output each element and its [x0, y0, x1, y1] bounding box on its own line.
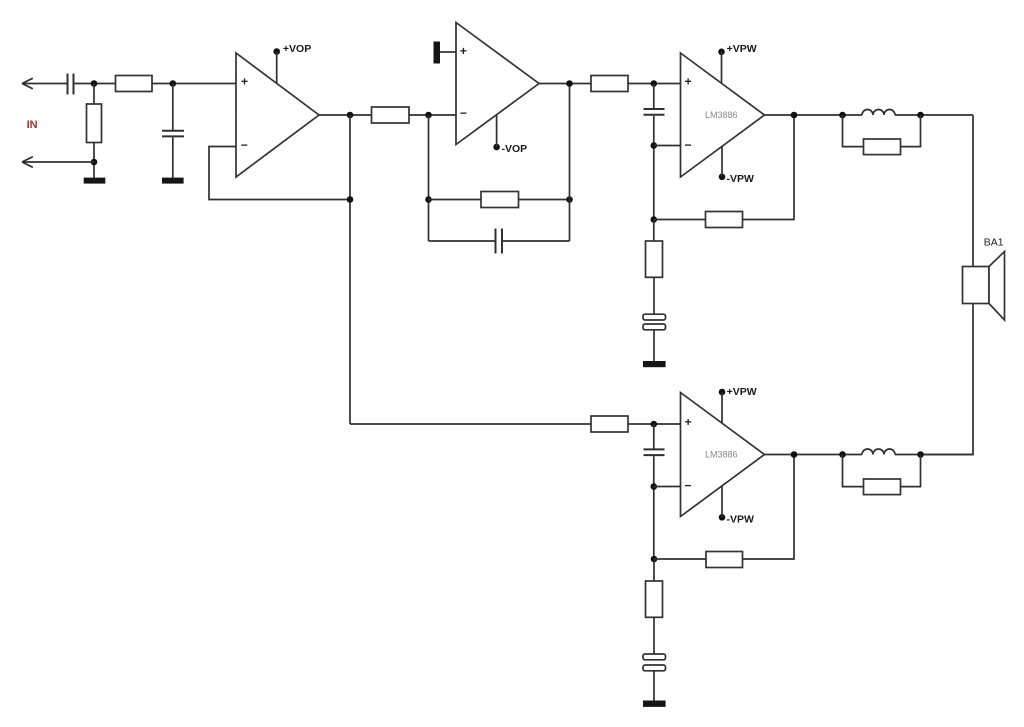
wire — [93, 143, 95, 178]
wire — [152, 83, 236, 85]
node B — [91, 159, 98, 166]
node E — [347, 196, 354, 203]
wire U2 output — [539, 83, 591, 85]
node S — [791, 451, 798, 458]
wire to lower amp — [350, 423, 591, 425]
wire — [569, 84, 571, 242]
svg-text:+: + — [460, 44, 467, 58]
capacitor C3 — [429, 229, 570, 254]
node F — [425, 112, 432, 119]
resistor R4 — [481, 192, 519, 208]
+VPW power node (U3) — [718, 43, 757, 83]
capacitor C6 — [644, 424, 665, 559]
svg-text:+VPW: +VPW — [727, 43, 757, 55]
svg-text:+: + — [685, 74, 692, 88]
resistor R12 (parallel with L2) — [843, 455, 921, 495]
wire — [519, 199, 570, 201]
svg-text:−: − — [460, 106, 467, 120]
svg-text:+VOP: +VOP — [283, 43, 311, 55]
svg-text:−: − — [241, 138, 248, 152]
wire — [628, 83, 681, 85]
-VPW power node (U4) — [719, 486, 754, 526]
wire — [349, 115, 351, 424]
wire — [895, 454, 973, 456]
inductor L1 — [862, 110, 895, 115]
wire — [654, 486, 681, 488]
resistor R8 (parallel with L1) — [843, 115, 921, 155]
resistor R2 — [116, 76, 153, 92]
wire — [743, 455, 795, 560]
+VOP power node — [273, 43, 311, 84]
svg-text:−: − — [685, 479, 692, 493]
wire — [654, 558, 706, 560]
node O — [917, 112, 924, 119]
capacitor C7 — [643, 654, 666, 701]
capacitor C1 — [68, 74, 74, 95]
node I — [566, 80, 573, 87]
svg-text:+: + — [241, 75, 248, 89]
capacitor C2 — [162, 84, 184, 178]
node N — [839, 112, 846, 119]
-VOP power node — [493, 115, 527, 155]
wire U1 output — [319, 114, 372, 116]
resistor R7 — [646, 220, 663, 315]
node K — [651, 142, 658, 149]
node R — [651, 556, 658, 563]
node U — [917, 451, 924, 458]
op-amp U4 LM3886 — [681, 393, 765, 517]
wire — [895, 114, 973, 116]
svg-text:+VPW: +VPW — [727, 386, 757, 398]
svg-text:-VPW: -VPW — [727, 173, 755, 185]
inductor L2 — [862, 449, 895, 454]
node M — [791, 112, 798, 119]
resistor R11 — [646, 559, 663, 654]
node G — [425, 196, 432, 203]
svg-text:+: + — [685, 415, 692, 429]
wire — [93, 84, 95, 105]
node H — [566, 196, 573, 203]
input terminal arrow bottom — [22, 157, 94, 168]
wire U3 output — [765, 114, 863, 116]
ground — [643, 701, 666, 707]
capacitor C4 — [644, 84, 665, 220]
node J — [651, 80, 658, 87]
op-amp U1 — [236, 53, 319, 177]
wire — [628, 423, 681, 425]
resistor R5 — [591, 76, 628, 92]
node T — [839, 451, 846, 458]
svg-text:IN: IN — [27, 119, 38, 131]
resistor R6 — [706, 212, 743, 228]
svg-text:LM3886: LM3886 — [705, 110, 738, 120]
ground — [643, 361, 666, 367]
svg-text:LM3886: LM3886 — [705, 449, 738, 459]
wire — [743, 115, 795, 220]
wire — [429, 199, 482, 201]
resistor R10 — [706, 552, 743, 568]
wire — [409, 114, 456, 116]
ground — [84, 178, 106, 184]
ground bar at U2 + input — [434, 42, 457, 64]
node L — [651, 216, 658, 223]
wire U1 feedback — [209, 147, 350, 200]
wire U4 output — [765, 454, 863, 456]
wire rail below speaker — [921, 304, 974, 455]
svg-text:−: − — [685, 138, 692, 152]
resistor R9 — [591, 416, 628, 432]
op-amp U3 LM3886 — [681, 53, 765, 177]
wire — [654, 219, 706, 221]
svg-text:-VOP: -VOP — [502, 143, 528, 155]
-VPW power node (U3) — [719, 146, 754, 185]
capacitor C5 — [643, 314, 666, 361]
node D — [347, 112, 354, 119]
resistor R3 — [372, 107, 410, 123]
node Q — [651, 483, 658, 490]
node A — [91, 80, 98, 87]
wire — [428, 115, 430, 241]
+VPW power node (U4) — [719, 386, 757, 424]
svg-text:BA1: BA1 — [984, 237, 1004, 249]
speaker BA1 — [963, 237, 1005, 320]
node C — [170, 80, 177, 87]
node P — [651, 421, 658, 428]
wire — [75, 83, 116, 85]
wire right rail down — [972, 115, 974, 267]
op-amp U2 — [456, 23, 539, 145]
input terminal arrow top — [22, 78, 67, 89]
ground — [162, 178, 184, 184]
resistor R1 — [87, 104, 102, 143]
wire — [654, 145, 681, 147]
svg-text:-VPW: -VPW — [727, 513, 755, 525]
